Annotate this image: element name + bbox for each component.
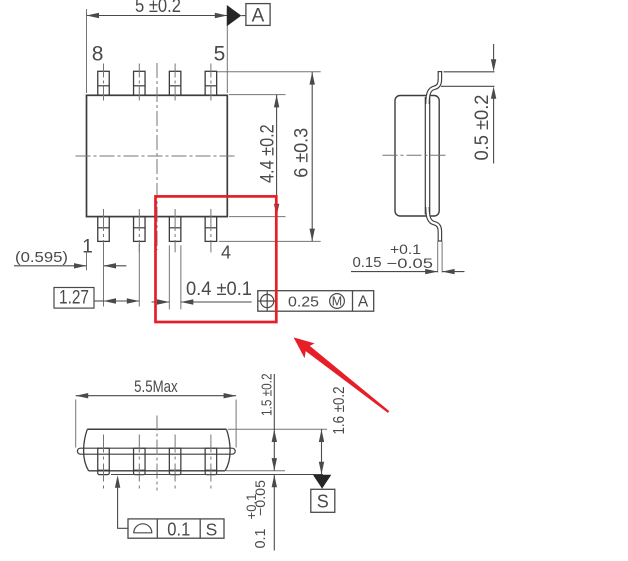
dimension 5.5Max — [76, 377, 236, 448]
dimension 1.6 ±0.2 — [319, 387, 348, 475]
front view body right edge — [225, 429, 230, 470]
front view body bottom edge — [89, 470, 226, 472]
seating plane line — [111, 474, 323, 476]
front view lead 2 — [134, 435, 146, 490]
pin 2 (bottom row) — [134, 209, 146, 252]
dimension 0.5 ±0.2 (side view) — [441, 44, 496, 164]
svg-text:0.4 ±0.1: 0.4 ±0.1 — [186, 279, 252, 300]
svg-text:4: 4 — [221, 243, 231, 263]
side view bottom lead — [428, 207, 443, 241]
svg-text:S: S — [317, 491, 329, 511]
dimension 0.4 ±0.1 — [152, 245, 253, 309]
dimension 5 ±0.2 (top) — [87, 0, 228, 93]
svg-text:−0.05: −0.05 — [387, 255, 434, 271]
front view lead 3 — [169, 435, 181, 490]
front view lead 4 — [205, 435, 217, 490]
svg-text:5: 5 — [214, 43, 226, 66]
pin 8 (top row) — [98, 64, 110, 104]
dimension 6 ±0.3 (far right of top view) — [217, 72, 321, 242]
svg-text:8: 8 — [92, 43, 104, 66]
svg-text:M: M — [332, 294, 342, 308]
dimension 1.27 (boxed) — [54, 288, 139, 309]
leader arrow to seating plane — [115, 475, 128, 528]
pin 1 (bottom row) — [98, 209, 110, 252]
side view centerline — [383, 154, 448, 156]
svg-text:0.25: 0.25 — [288, 295, 319, 311]
dimension 4.4 ±0.2 (right of top view) — [229, 95, 286, 217]
svg-text:0.1: 0.1 — [253, 529, 269, 549]
top edge extension line — [228, 428, 327, 430]
front view body top edge — [87, 428, 226, 430]
datum A symbol — [227, 4, 270, 27]
front view body left edge — [84, 429, 89, 470]
svg-text:5.5Max: 5.5Max — [134, 377, 178, 396]
red highlight rectangle — [156, 196, 277, 322]
pin 4 (bottom row) — [205, 209, 217, 252]
svg-text:6 ±0.3: 6 ±0.3 — [292, 128, 313, 178]
dimension 1.5 ±0.2 — [260, 374, 278, 471]
datum S symbol — [311, 475, 335, 513]
svg-text:4.4 ±0.2: 4.4 ±0.2 — [257, 124, 278, 183]
side view lead column — [424, 97, 426, 215]
pin 6 (top row) — [169, 64, 181, 104]
side view body — [395, 96, 439, 217]
dimension (0.595) — [14, 249, 126, 270]
svg-text:5 ±0.2: 5 ±0.2 — [135, 0, 181, 17]
feature control frame: seating plane 0.1 S — [128, 519, 224, 540]
pin 5 (top row) — [205, 64, 217, 104]
svg-text:1: 1 — [82, 237, 93, 258]
pin 7 (top row) — [134, 64, 146, 104]
svg-text:0.15: 0.15 — [353, 255, 382, 271]
bottom edge extension line — [226, 470, 285, 472]
top view horizontal centerline — [76, 155, 236, 157]
svg-text:A: A — [252, 6, 265, 27]
front view lead 1 — [98, 435, 110, 490]
pin1/pin2 extension lines — [103, 244, 105, 307]
svg-text:0.5 ±0.2: 0.5 ±0.2 — [472, 95, 493, 161]
svg-text:(0.595): (0.595) — [15, 249, 68, 266]
svg-text:1.5 ±0.2: 1.5 ±0.2 — [260, 374, 276, 417]
dimension 0.1 +0.1/-0.05 (standoff) — [243, 475, 277, 551]
dimension 0.15 +0.1/-0.05 (lead thickness) — [351, 241, 465, 274]
svg-text:S: S — [206, 520, 218, 540]
svg-text:0.1: 0.1 — [167, 520, 190, 540]
top view vertical centerline — [156, 63, 158, 250]
side view top lead — [428, 72, 443, 104]
red callout arrow — [294, 337, 390, 413]
svg-text:1.6 ±0.2: 1.6 ±0.2 — [331, 387, 348, 435]
top view package body — [87, 95, 228, 216]
svg-text:1.27: 1.27 — [59, 288, 89, 309]
front view vertical centerline — [156, 416, 158, 491]
front view parting line band — [77, 448, 235, 454]
svg-text:+0.1: +0.1 — [243, 493, 259, 519]
pin 3 (bottom row) — [169, 209, 181, 252]
feature control frame: position 0.25 M A — [258, 291, 374, 312]
svg-text:A: A — [358, 293, 369, 310]
